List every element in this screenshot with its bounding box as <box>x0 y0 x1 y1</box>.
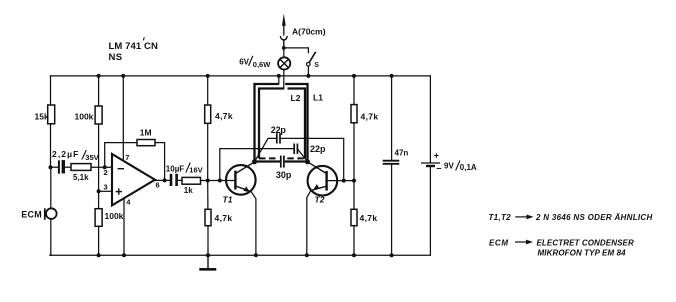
svg-text:T1: T1 <box>223 195 233 205</box>
node top rail 100k <box>97 74 101 78</box>
svg-text:L1: L1 <box>313 93 323 103</box>
node pin2/1M <box>103 165 107 169</box>
node top rail 47n <box>390 74 394 78</box>
wire pin3 <box>99 190 112 192</box>
switch S <box>307 52 320 69</box>
node top rail switch <box>306 74 310 78</box>
wire lower 4.7k to bottom rail <box>207 226 209 256</box>
svg-text:1k: 1k <box>184 186 193 195</box>
svg-text:7: 7 <box>125 153 129 162</box>
node bottom rail 4,7k right <box>352 253 356 257</box>
wire left column (mic branch) <box>50 76 52 106</box>
svg-text:1M: 1M <box>140 127 152 137</box>
svg-text:16V: 16V <box>189 166 202 175</box>
wire lower 4.7k to bottom rail <box>353 226 355 256</box>
svg-text:9V: 9V <box>444 162 454 171</box>
node bottom rail 100k <box>97 253 101 257</box>
svg-text:2: 2 <box>104 168 108 177</box>
battery 9V <box>421 151 477 174</box>
wire 4.7k to T2 base node <box>353 123 355 181</box>
capacitor C 2,2uF/35V <box>52 149 99 174</box>
wire 1M to output node <box>155 143 165 181</box>
wire T2 emitter to bottom rail <box>307 190 311 255</box>
note ECM type <box>489 238 634 257</box>
wire 2.2uF to 5.1k <box>65 166 71 168</box>
wire 1k to T1 base <box>201 180 236 182</box>
microphone ECM <box>21 208 56 220</box>
capacitor C 22p (left) <box>271 125 287 144</box>
node top rail tank feed <box>277 74 281 78</box>
wire tank left corner to 22p <box>255 138 277 161</box>
svg-text:0,1A: 0,1A <box>460 163 477 172</box>
wire top supply rail <box>51 75 431 77</box>
wire lower 100k to bottom rail <box>98 226 100 255</box>
node bottom rail T2 emitter <box>305 253 309 257</box>
svg-text:4,7k: 4,7k <box>360 213 378 223</box>
op-amp U1 LM741 <box>112 154 155 205</box>
resistor R 4,7k (T2 upper) <box>351 105 378 123</box>
node antenna <box>282 46 286 50</box>
wire 5.1k to pin2 <box>91 166 112 168</box>
node output pin6 <box>163 178 167 182</box>
wire T1 emitter to bottom rail <box>251 192 256 256</box>
wire antenna node to lamp <box>283 48 285 57</box>
svg-text:0,6W: 0,6W <box>253 60 271 69</box>
wire node to mic <box>50 167 52 208</box>
svg-text:35V: 35V <box>85 153 98 162</box>
wire T2 base node to lower 4.7k <box>353 181 355 210</box>
wire 4.7k to T1 base node <box>207 123 209 181</box>
svg-text:L2: L2 <box>291 93 301 103</box>
wire signal node to 2.2uF <box>51 166 58 168</box>
resistor R 5,1k <box>71 164 91 182</box>
svg-text:5,1k: 5,1k <box>73 173 89 182</box>
wire 100k top column <box>98 76 100 107</box>
resistor R 100k (upper bias) <box>75 106 103 124</box>
node T1 base riser <box>218 179 222 183</box>
resistor R 4,7k (T2 lower) <box>351 209 377 225</box>
coil L2 (inner loop) <box>259 89 305 159</box>
wire antenna node to switch <box>284 48 309 53</box>
wire battery column bottom <box>429 167 431 256</box>
svg-text:22p: 22p <box>310 144 326 154</box>
wire 47n column bottom <box>391 164 393 255</box>
node bottom rail T1 emitter <box>254 253 258 257</box>
svg-text:T2: T2 <box>315 195 325 205</box>
transistor T2 <box>308 162 338 205</box>
node bottom rail ground <box>206 253 210 257</box>
wire switch to top rail <box>307 66 309 76</box>
wire 22p to T2 base riser <box>280 138 343 180</box>
capacitor C 47n <box>383 148 409 164</box>
ground <box>199 255 216 269</box>
resistor R 4,7k (T1 lower) <box>205 209 232 225</box>
wire 10uF to 1k <box>177 179 182 181</box>
node tank left corner <box>252 159 257 164</box>
node signal/15k <box>49 165 53 169</box>
node bottom rail pin4 <box>122 253 126 257</box>
svg-text:NS: NS <box>109 52 123 63</box>
node top rail 4,7k left <box>206 74 210 78</box>
wire bottom ground rail <box>50 254 430 256</box>
wire 22p to tank right corner <box>297 149 307 162</box>
wire T1 divider column top <box>207 76 209 106</box>
svg-text:ECM: ECM <box>21 209 42 219</box>
wire outer coil feed stub <box>278 76 280 84</box>
capacitor C 10uF/16V <box>166 163 203 187</box>
node T2 divider <box>352 179 356 183</box>
svg-text:+: + <box>434 151 439 161</box>
antenna A(70cm) <box>280 14 325 48</box>
wire T1 coupling riser <box>220 149 294 181</box>
svg-text:2,2µF: 2,2µF <box>52 149 79 159</box>
svg-text:LM 741 CN: LM 741 CN <box>109 41 159 52</box>
wire 100k to pin3 node <box>98 124 100 192</box>
wire op-amp output <box>155 179 170 181</box>
svg-text:6: 6 <box>156 180 160 189</box>
svg-text:3: 3 <box>104 182 108 191</box>
note T1,T2 type <box>489 213 653 222</box>
resistor R 1M feedback <box>137 127 155 145</box>
svg-text:100k: 100k <box>75 112 94 122</box>
coil L1 (outer loop) <box>255 84 324 162</box>
node T1 divider <box>206 179 210 183</box>
wire op-amp pin4 to bottom rail <box>123 199 125 256</box>
svg-text:4: 4 <box>126 197 131 206</box>
wire pin3 node to lower 100k <box>98 191 100 209</box>
node top rail 4,7k right <box>352 74 356 78</box>
capacitor C 22p (right) <box>294 144 326 155</box>
svg-text:47n: 47n <box>395 148 409 157</box>
svg-text:30p: 30p <box>276 170 292 180</box>
svg-text:15k: 15k <box>35 111 49 121</box>
svg-text:6V: 6V <box>239 57 249 66</box>
wire feedback up from pin2 node <box>105 143 137 168</box>
svg-text:100k: 100k <box>105 211 124 221</box>
node bottom rail 47n <box>390 253 394 257</box>
svg-text:22p: 22p <box>271 125 287 135</box>
wire 15k to signal node <box>50 124 52 168</box>
svg-text:4,7k: 4,7k <box>215 213 233 223</box>
svg-text:2 N 3646 NS ODER ÄHNLICH: 2 N 3646 NS ODER ÄHNLICH <box>535 213 653 222</box>
node pin3 bias <box>97 189 101 193</box>
svg-text:A(70cm): A(70cm) <box>292 26 326 36</box>
svg-text:−: − <box>436 164 441 174</box>
svg-text:10µF: 10µF <box>166 164 185 173</box>
svg-text:T1,T2: T1,T2 <box>489 213 512 222</box>
svg-text:ECM: ECM <box>489 238 509 247</box>
node tank right corner <box>305 159 310 164</box>
wire T1 base node to lower 4.7k <box>207 181 209 210</box>
resistor R 100k (lower bias) <box>95 209 124 227</box>
wire mic to bottom rail <box>49 219 52 255</box>
svg-text:4,7k: 4,7k <box>361 111 379 121</box>
svg-text:S: S <box>314 62 319 69</box>
wire op-amp pin7 to top rail <box>122 76 124 161</box>
capacitor C 30p <box>276 156 292 180</box>
transistor T1 <box>223 162 256 205</box>
svg-text:4,7k: 4,7k <box>215 111 233 121</box>
svg-text:MIKROFON TYP EM 84: MIKROFON TYP EM 84 <box>538 248 627 257</box>
resistor R 1k <box>182 177 201 195</box>
node dots <box>49 46 394 257</box>
node top rail pin7 <box>121 74 125 78</box>
svg-text:ELECTRET CONDENSER: ELECTRET CONDENSER <box>537 238 634 247</box>
wire T2 divider column top <box>353 76 355 105</box>
wire battery column top <box>429 76 431 162</box>
wire T2 base <box>327 180 354 182</box>
op-amp label LM 741 CN / NS <box>109 37 159 63</box>
node T2 base riser <box>342 179 346 183</box>
resistor R 4,7k (T1 upper) <box>205 105 233 123</box>
resistor R 15k <box>35 105 55 124</box>
wire lamp to inner coil feed <box>283 70 285 89</box>
lamp 6V/0,6W <box>239 56 290 70</box>
wire 47n column top <box>391 76 393 160</box>
